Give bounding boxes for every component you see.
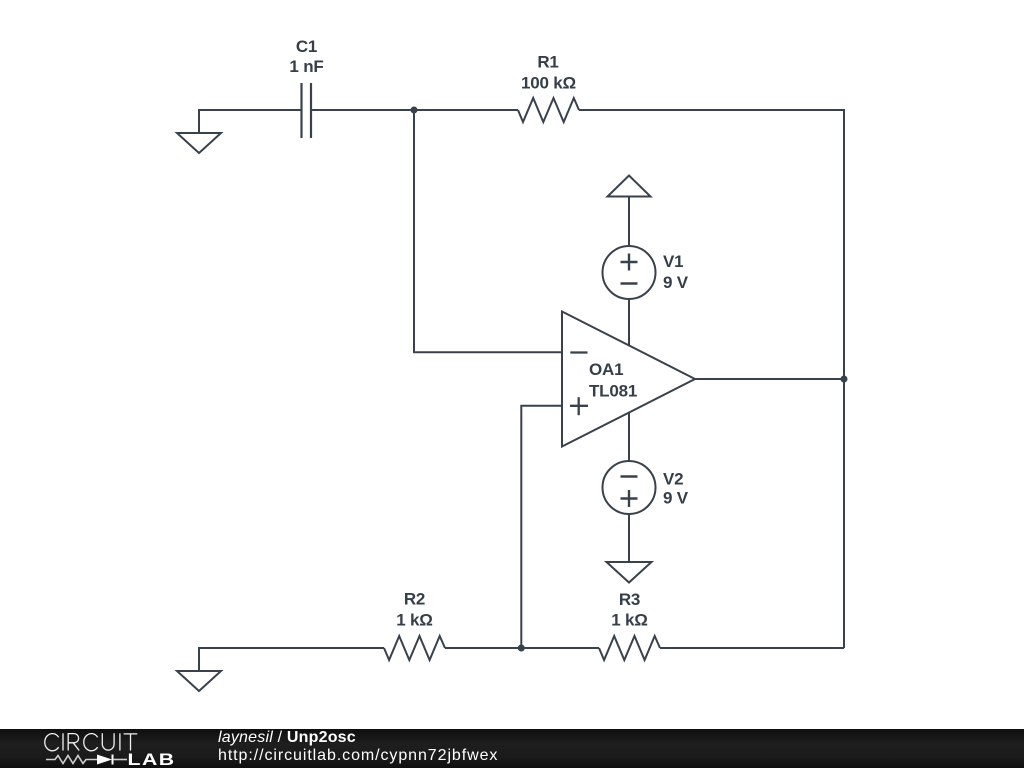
- svg-text:9 V: 9 V: [663, 489, 689, 508]
- wire: plus-input feed up from bottom node: [521, 406, 562, 648]
- resistor R3 zigzag: [599, 636, 660, 660]
- footer text: [218, 729, 498, 765]
- ground top-left: [177, 133, 221, 153]
- ground bottom-left: [177, 671, 221, 691]
- wire: node A down to op-amp inverting input: [414, 110, 562, 352]
- svg-text:V2: V2: [663, 470, 683, 489]
- wire: node A to R1: [414, 109, 518, 111]
- voltage source V2: [603, 461, 656, 514]
- op-amp OA1: [562, 312, 695, 447]
- svg-text:R2: R2: [404, 590, 425, 609]
- svg-text:1 kΩ: 1 kΩ: [396, 611, 432, 630]
- wire: V1 to op-amp V+ pin: [628, 297, 630, 348]
- output junction dot: [841, 376, 848, 383]
- resistor R2 zigzag: [384, 636, 445, 660]
- svg-text:LAB: LAB: [128, 751, 176, 768]
- wire: op-amp V- pin to V2: [628, 408, 630, 463]
- CircuitLab logo: [0, 729, 200, 768]
- wire: op-amp output to right rail: [695, 378, 844, 380]
- wire: R3 to right rail: [660, 647, 844, 649]
- voltage source V1: [603, 246, 656, 299]
- svg-text:9 V: 9 V: [663, 273, 689, 292]
- svg-text:C1: C1: [296, 37, 317, 56]
- wire: R1 to right rail, down right side: [579, 110, 844, 648]
- wire: V2 to ground stem: [628, 512, 630, 562]
- wire: R2 to node B: [445, 647, 599, 649]
- svg-text:V1: V1: [663, 252, 683, 271]
- svg-text:OA1: OA1: [589, 360, 623, 379]
- ground below V2: [607, 562, 652, 583]
- svg-text:100 kΩ: 100 kΩ: [521, 74, 576, 93]
- power flag up-triangle: [608, 176, 651, 197]
- footer bar: [0, 729, 1024, 768]
- resistor R1 zigzag: [518, 98, 579, 122]
- capacitor C1 plates: [300, 83, 302, 138]
- node A junction dot: [411, 107, 418, 114]
- svg-text:R3: R3: [619, 590, 640, 609]
- wire: V1 power stem: [628, 197, 630, 249]
- svg-text:R1: R1: [537, 53, 558, 72]
- wire: C1 right plate to node A: [312, 109, 414, 111]
- svg-text:1 nF: 1 nF: [289, 57, 323, 76]
- wire: bottom rail left of R2: [199, 648, 384, 671]
- svg-text:TL081: TL081: [589, 382, 637, 401]
- svg-text:1 kΩ: 1 kΩ: [611, 611, 647, 630]
- wire: top-left horizontal from ground to C1 left plate: [199, 110, 301, 133]
- node B junction dot: [518, 645, 525, 652]
